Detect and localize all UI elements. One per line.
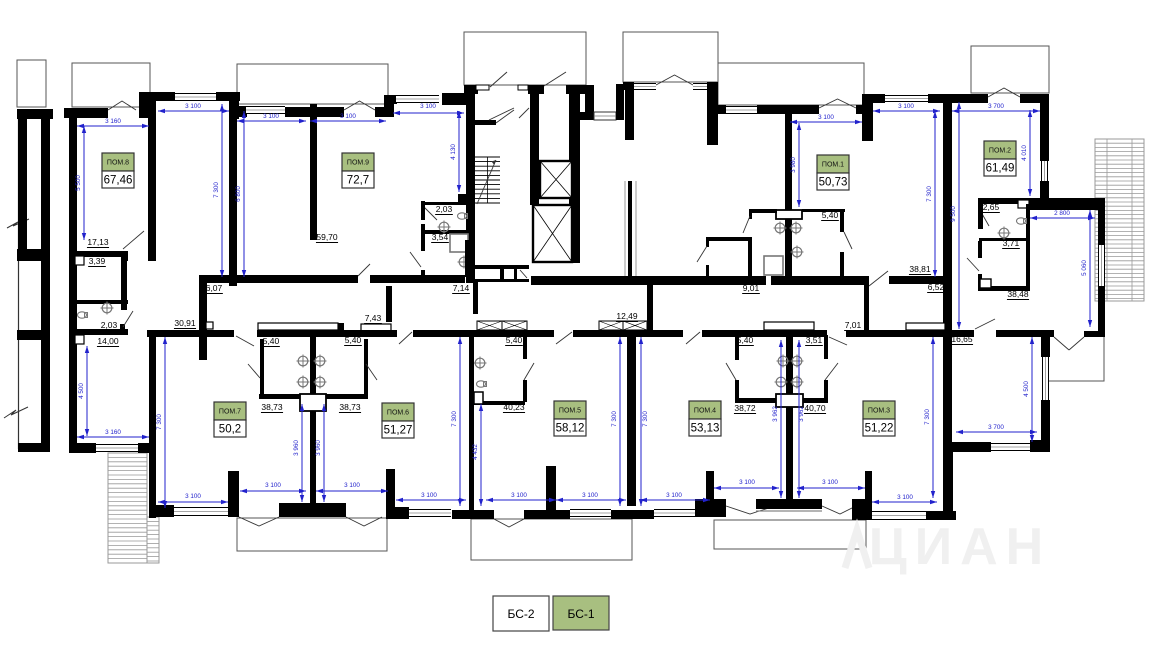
balcony outline top-left — [17, 60, 46, 107]
left section bottom window — [96, 444, 138, 452]
sink POM9 — [459, 257, 469, 267]
svg-text:4 500: 4 500 — [78, 383, 85, 399]
entrance double door V — [1054, 337, 1069, 350]
corridor lower wall s1 — [147, 330, 234, 337]
wall middle|POM9 — [229, 104, 237, 286]
balcony outline bottom center — [471, 519, 632, 560]
POM4 shaft box — [776, 394, 803, 407]
room label ПОМ.1 = 50,73 — [817, 155, 849, 173]
svg-text:40,70: 40,70 — [804, 403, 826, 413]
legend box BS-2 — [493, 596, 549, 631]
sink left bath — [102, 303, 112, 313]
svg-text:3,54: 3,54 — [432, 232, 449, 242]
shower POM9 — [450, 234, 468, 252]
POM2 bath wall v1 — [978, 198, 983, 229]
bay2 right wall — [707, 82, 718, 145]
svg-text:5,40: 5,40 — [345, 335, 362, 345]
POM4 entry door diag — [686, 332, 700, 344]
svg-text:6,07: 6,07 — [206, 283, 223, 293]
bottom base x524 — [524, 510, 570, 519]
svg-text:БС-1: БС-1 — [567, 607, 594, 621]
balcony door V POM3 — [822, 506, 854, 514]
svg-text:3 100: 3 100 — [340, 113, 356, 120]
POM1 top wall seg3 — [856, 105, 864, 114]
corridor lower wall s7 — [996, 330, 1054, 337]
shower POM1 — [764, 256, 783, 275]
dim-v 4 130 #3 — [458, 111, 460, 192]
POM1 west door diag — [697, 246, 707, 262]
svg-text:17,13: 17,13 — [87, 237, 109, 247]
el-panel square — [206, 322, 213, 329]
dim-h 3 160 #1 — [77, 125, 149, 127]
svg-text:3 960: 3 960 — [293, 440, 300, 456]
bay2 window marks2 — [693, 83, 708, 90]
POM7-6 bath left wall — [260, 339, 264, 396]
svg-text:5 500: 5 500 — [75, 175, 82, 191]
svg-text:14,00: 14,00 — [97, 336, 119, 346]
hall window y110 — [594, 112, 616, 120]
POM7-6 shaft box — [300, 394, 326, 411]
svg-text:3 100: 3 100 — [421, 492, 437, 499]
dim-v 6 800 #2 — [243, 111, 245, 277]
svg-text:3 100: 3 100 — [739, 479, 755, 486]
bay SE corner — [1030, 440, 1050, 452]
POM9 bath partition 1 — [421, 202, 470, 205]
svg-text:ПОМ.6: ПОМ.6 — [387, 410, 409, 417]
svg-text:30,91: 30,91 — [174, 318, 196, 328]
break mark left lower — [4, 407, 28, 418]
dim-v 3 962 #20 — [798, 340, 800, 498]
POM1 top wall seg1 — [718, 105, 726, 114]
wall 14.00 top — [69, 329, 128, 335]
sinks POM1 — [775, 223, 785, 233]
dim-h 3 100 #12 — [240, 490, 306, 492]
step corner block — [386, 507, 409, 519]
corridor lower wall s5 — [702, 330, 827, 337]
dim-v 4 500 #12 — [86, 346, 88, 436]
door diag POM3 bath — [825, 363, 838, 380]
room label ПОМ.3 = 51,22 — [863, 401, 895, 419]
bottom base 7|6 — [279, 503, 346, 517]
fixtures POM4 — [778, 356, 788, 366]
svg-text:51,22: 51,22 — [865, 423, 894, 435]
svg-text:ПОМ.2: ПОМ.2 — [989, 148, 1011, 155]
door diag 14.00 — [123, 311, 133, 327]
balcony outline tall center-left — [464, 32, 586, 85]
bottom base 5|4 — [611, 510, 654, 519]
svg-text:38,72: 38,72 — [734, 403, 756, 413]
bottom base 4|3 — [756, 499, 822, 509]
POM3 door diag from 7.01 — [829, 337, 847, 345]
dim-v 7 300 #1 — [221, 104, 223, 277]
wall 12.49|9.01 — [647, 281, 653, 332]
POM9 bath vert partition — [421, 201, 425, 220]
svg-text:ПОМ.3: ПОМ.3 — [868, 408, 890, 415]
hall top wall y110 seg1 — [580, 112, 593, 120]
POM1 inner wall (party w/ hall) — [785, 114, 792, 277]
POM1 entry door diag2 — [844, 232, 852, 249]
POM9 left bay corner — [229, 92, 239, 119]
bottom wall SE corner — [926, 511, 956, 520]
POM2 room bottom wall — [978, 286, 1029, 291]
POM2 lower room wall v — [978, 241, 982, 258]
svg-text:3 100: 3 100 — [818, 114, 834, 121]
fixtures POM4 row2 — [776, 377, 786, 387]
POM1 balcony door V — [819, 99, 856, 108]
wall top y107 seg1 — [239, 106, 247, 117]
sink POM9 upper — [439, 222, 449, 232]
svg-text:3 100: 3 100 — [265, 482, 281, 489]
dim-v 4 500 #9 — [1031, 337, 1033, 442]
corridor upper wall B — [370, 275, 465, 283]
elevator block bottom wall — [468, 265, 529, 269]
balcony outline above POM8 — [72, 63, 150, 107]
dim-v 7 300 #5 — [934, 111, 936, 277]
left stub wall 1 — [17, 249, 50, 261]
svg-text:3 100: 3 100 — [420, 103, 436, 110]
niche in left wall 3.39 — [75, 256, 84, 265]
svg-text:3 100: 3 100 — [185, 103, 201, 110]
bay SE wall v1 — [1041, 334, 1050, 357]
svg-text:12,49: 12,49 — [616, 311, 638, 321]
svg-text:3 100: 3 100 — [582, 492, 598, 499]
dim-h 3 100 #6 — [873, 110, 940, 112]
POM3 right wall — [943, 442, 953, 520]
corridor lower wall s8 — [1084, 331, 1105, 337]
svg-text:2,03: 2,03 — [436, 204, 453, 214]
elevator block left wall — [530, 85, 539, 205]
elevator shaft 1 — [540, 161, 572, 198]
wall 17.13 bottom — [69, 251, 121, 257]
svg-text:ЦИАН: ЦИАН — [869, 518, 1051, 576]
svg-text:16,65: 16,65 — [951, 334, 973, 344]
dim-v 3 980 #4 — [798, 123, 800, 207]
sink POM2 — [999, 228, 1009, 238]
dim-h 3 100 #5 — [790, 121, 862, 123]
POM6 entry door diag — [399, 332, 412, 344]
svg-text:7,14: 7,14 — [453, 283, 470, 293]
svg-text:67,46: 67,46 — [104, 175, 133, 187]
POM2 vent notch — [1018, 200, 1029, 208]
stairs treads — [475, 156, 500, 158]
POM1 bay window right — [883, 95, 928, 102]
POM3 bath right wall — [824, 335, 828, 359]
dim-h 3 100 #16 — [556, 499, 626, 501]
corridor upper wall F — [889, 276, 944, 284]
balcony door V POM7 — [239, 517, 279, 526]
vent cells corridor 2 — [599, 321, 623, 330]
corridor left cap wall — [199, 275, 207, 360]
dim-h 3 100 #0 — [158, 110, 229, 112]
POM2 right wall upper — [1040, 94, 1049, 161]
POM2 balcony door V — [988, 88, 1020, 97]
toilet POM1 — [792, 247, 802, 257]
dim-h 3 100 #18 — [714, 487, 779, 489]
POM7|6 party wall — [310, 336, 316, 506]
entry hall top wall seg1 — [464, 85, 478, 94]
POM5 bath right wall — [523, 335, 527, 359]
POM1 shaft box — [776, 210, 802, 219]
POM4-3 bath bottom wall — [735, 398, 826, 403]
svg-text:40,23: 40,23 — [503, 402, 525, 412]
dim-v 5 500 #0 — [83, 126, 85, 240]
svg-text:7 300: 7 300 — [926, 186, 933, 202]
svg-text:5,40: 5,40 — [822, 210, 839, 220]
POM9 bay top wall — [384, 95, 397, 104]
dim-v 7 300 #10 — [932, 337, 934, 498]
svg-text:7 300: 7 300 — [156, 414, 163, 430]
dim-h 3 100 #3 — [310, 120, 386, 122]
POM2 bath wall v2 — [1026, 204, 1030, 291]
svg-text:58,12: 58,12 — [556, 423, 585, 435]
corridor lower wall s3 — [413, 330, 554, 337]
POM1 west room right wall — [748, 237, 752, 277]
dim-v 3 960 #13 — [301, 404, 303, 502]
POM8 balcony door V — [108, 101, 136, 110]
dim-h 3 700 #7 — [952, 110, 1040, 112]
POM5 bath bottom wall — [474, 401, 525, 405]
bay2 top wall seg2 — [708, 82, 718, 90]
bay SE bottom window — [991, 443, 1030, 451]
room label ПОМ.2 = 61,49 — [984, 141, 1016, 159]
entry bay corner block — [442, 93, 471, 105]
svg-text:ПОМ.5: ПОМ.5 — [559, 408, 581, 415]
dim-v 7 300 #18 — [640, 337, 642, 506]
stairs landing box — [458, 194, 466, 202]
window top POM9 bay — [396, 95, 439, 103]
svg-text:5,40: 5,40 — [506, 335, 523, 345]
svg-text:5,40: 5,40 — [737, 335, 754, 345]
room label ПОМ.6 = 51,27 — [382, 403, 414, 421]
top wall right seg3 — [1020, 94, 1041, 103]
POM2 door diag upper — [981, 212, 989, 226]
svg-text:4 500: 4 500 — [1023, 381, 1030, 397]
left section thin edge line — [18, 119, 20, 449]
niche 7.43 — [361, 324, 391, 331]
POM7-6 bath right wall — [364, 339, 368, 396]
svg-text:7,01: 7,01 — [845, 320, 862, 330]
bay east wall upper — [1098, 210, 1105, 245]
bottom stub x546 — [546, 466, 556, 511]
svg-text:72,7: 72,7 — [347, 175, 369, 187]
niche below 14.00 — [75, 335, 84, 344]
POM1 entry wall upper — [840, 209, 844, 232]
svg-text:3 980: 3 980 — [790, 157, 797, 173]
POM2 door diag — [967, 258, 979, 271]
POM1 bath top wall — [749, 209, 777, 213]
entry hall top wall seg3 — [566, 85, 594, 94]
corridor upper wall D — [653, 276, 766, 285]
POM1 top window — [726, 106, 757, 114]
dim-h 3 100 #14 — [396, 499, 466, 501]
POM2 shaft box — [980, 279, 991, 288]
door diag POM5 bath — [524, 363, 534, 380]
wall top y107 seg2 — [285, 107, 344, 117]
bottom window L1 — [174, 507, 228, 516]
bottom stub x865 — [865, 471, 872, 499]
balcony door V POM4 — [726, 506, 775, 514]
toilet left bath — [78, 312, 87, 318]
bottom block x852 — [852, 499, 872, 520]
left outer wall — [41, 117, 50, 452]
dim-v 5 060 #8 — [1089, 210, 1091, 327]
fire-escape ladder right — [1095, 139, 1144, 301]
niche POM4 corridor — [764, 322, 814, 330]
bay2 window marks — [634, 83, 656, 90]
dim-v 9 500 #6 — [958, 102, 960, 329]
elevator block right wall — [569, 85, 580, 263]
POM2 corner block — [1029, 198, 1039, 210]
balcony outline bottom below POM4-3 — [714, 520, 866, 549]
toilet POM9 — [458, 213, 467, 219]
svg-text:9,01: 9,01 — [743, 283, 760, 293]
party wall 5|4 — [627, 336, 636, 506]
entry door mark R — [518, 85, 528, 90]
POM1 bath top wall east — [802, 209, 845, 212]
wall 7.43 right — [386, 286, 392, 322]
corridor upper wall C — [531, 276, 656, 285]
svg-text:7 300: 7 300 — [451, 411, 458, 427]
POM5 entry door diag — [556, 332, 572, 344]
svg-text:3 700: 3 700 — [988, 103, 1004, 110]
POM1 bay corner — [862, 94, 873, 141]
wall 7.14|12.49 — [473, 282, 478, 314]
POM1 west room wall h — [706, 237, 751, 241]
dim-v 3 962 #19 — [780, 340, 782, 498]
door diag POM6 bath — [366, 364, 377, 380]
svg-text:3 160: 3 160 — [105, 429, 121, 436]
dim-h 3 160 #10 — [77, 436, 149, 438]
POM9 bath door diag 2 — [410, 252, 421, 267]
POM9 bath door diag 1 — [424, 207, 437, 220]
POM9 bay corner — [384, 95, 394, 117]
room label ПОМ.7 = 50,2 — [214, 402, 246, 420]
POM9 center wall — [310, 104, 317, 240]
partition y300 — [75, 300, 128, 304]
bay2 left wall — [625, 90, 634, 140]
door diag POM7 bath — [248, 364, 260, 378]
POM8 right-top corner wall — [139, 92, 156, 118]
toilet POM2 — [1017, 218, 1026, 224]
wall 14.00 end cap — [120, 324, 125, 335]
svg-text:6 800: 6 800 — [235, 186, 242, 202]
balcony outline bottom below POM7-6 — [237, 518, 387, 551]
svg-text:3,39: 3,39 — [89, 256, 106, 266]
fixtures POM7 — [298, 356, 308, 366]
svg-text:3 960: 3 960 — [315, 440, 322, 456]
POM4|3 party wall — [786, 335, 793, 499]
window top POM9 left — [246, 106, 285, 114]
svg-text:2 800: 2 800 — [1054, 210, 1070, 217]
machine room wall left — [585, 85, 594, 120]
entry hall top wall seg2 — [528, 85, 544, 94]
balcony door V POM5 — [494, 519, 524, 527]
dim-h 3 100 #15 — [486, 499, 556, 501]
POM3 entry door diag — [975, 319, 995, 329]
bottom wall L seg1 — [155, 505, 174, 517]
POM1 entry door diag — [869, 271, 888, 286]
partition vert x121 — [121, 257, 127, 310]
toilet POM5 — [477, 381, 486, 387]
svg-text:3 100: 3 100 — [822, 479, 838, 486]
room label ПОМ.4 = 53,13 — [689, 401, 721, 419]
svg-text:38,73: 38,73 — [339, 402, 361, 412]
dim-v 7 300 #11 — [164, 337, 166, 508]
svg-text:38,48: 38,48 — [1007, 289, 1029, 299]
hall top wall y110 seg2 — [616, 84, 624, 120]
party wall 6|5 — [469, 335, 474, 510]
svg-text:50,2: 50,2 — [219, 424, 241, 436]
svg-text:ПОМ.9: ПОМ.9 — [347, 160, 369, 167]
wall top-left under balcony — [17, 109, 53, 119]
POM1 top wall seg2 — [757, 105, 819, 114]
bay east window — [1098, 245, 1105, 286]
POM1 west wall v lower — [706, 265, 709, 277]
dim-h 2 800 #8 — [1030, 217, 1095, 219]
svg-text:3 100: 3 100 — [898, 103, 914, 110]
bay SE wall v2 — [1041, 400, 1050, 451]
POM5 bath notch — [474, 392, 483, 404]
bottom pier x228 — [228, 471, 239, 517]
POM2 right wall lower — [1040, 181, 1049, 200]
POM2 bay top wall — [1037, 198, 1105, 210]
svg-text:3 100: 3 100 — [511, 492, 527, 499]
svg-text:5 060: 5 060 — [1081, 260, 1088, 276]
svg-text:6,52: 6,52 — [928, 282, 945, 292]
bay window POM8 — [175, 93, 216, 101]
svg-text:БС-2: БС-2 — [507, 607, 534, 621]
balcony outline top-right above POM2 — [971, 46, 1049, 93]
wall 6|5 upper (7.14 side) — [465, 240, 475, 277]
dim-h 3 100 #2 — [237, 120, 306, 122]
POM7 entry door diag — [236, 336, 254, 346]
corridor lower wall s4 — [573, 330, 683, 337]
svg-text:2,03: 2,03 — [101, 320, 118, 330]
bottom window R3 — [570, 509, 611, 517]
svg-text:ПОМ.1: ПОМ.1 — [822, 162, 844, 169]
dim-h 3 100 #17 — [640, 499, 710, 501]
balcony outline tall center-right — [623, 32, 718, 82]
fixtures POM7 row2 — [298, 377, 308, 387]
door diag 17.13 — [123, 231, 144, 249]
wall POM8|middle room — [148, 92, 156, 261]
svg-text:3 160: 3 160 — [105, 118, 121, 125]
POM1 bath left wall — [749, 209, 752, 219]
svg-text:3 962: 3 962 — [772, 406, 779, 422]
svg-text:ПОМ.4: ПОМ.4 — [694, 408, 716, 415]
bay2 door V — [656, 75, 693, 85]
dim-h 3 100 #19 — [797, 487, 865, 489]
POM1 west room wall v — [706, 237, 709, 247]
vent cells corridor 1 — [477, 321, 502, 330]
bay SE bottom wall — [945, 442, 991, 452]
bay east wall lower — [1098, 286, 1105, 337]
POM7-6 bath bottom wall — [259, 394, 368, 399]
bay SE window — [1042, 357, 1049, 400]
left stub wall 2 — [17, 330, 50, 340]
left section bottom wall A — [69, 443, 96, 453]
left section bottom wall B — [138, 443, 156, 453]
dim-h 3 100 #4 — [393, 112, 464, 114]
svg-text:3,51: 3,51 — [806, 335, 823, 345]
svg-text:59,70: 59,70 — [316, 232, 338, 242]
svg-text:7 300: 7 300 — [924, 409, 931, 425]
POM2 bath wall h — [979, 238, 1030, 241]
dim-v 4 010 #7 — [1029, 110, 1031, 196]
POM2 bath partition top — [978, 198, 1029, 204]
stairs hatch bottom-left — [108, 453, 147, 563]
dim-h 3 100 #13 — [316, 490, 388, 492]
